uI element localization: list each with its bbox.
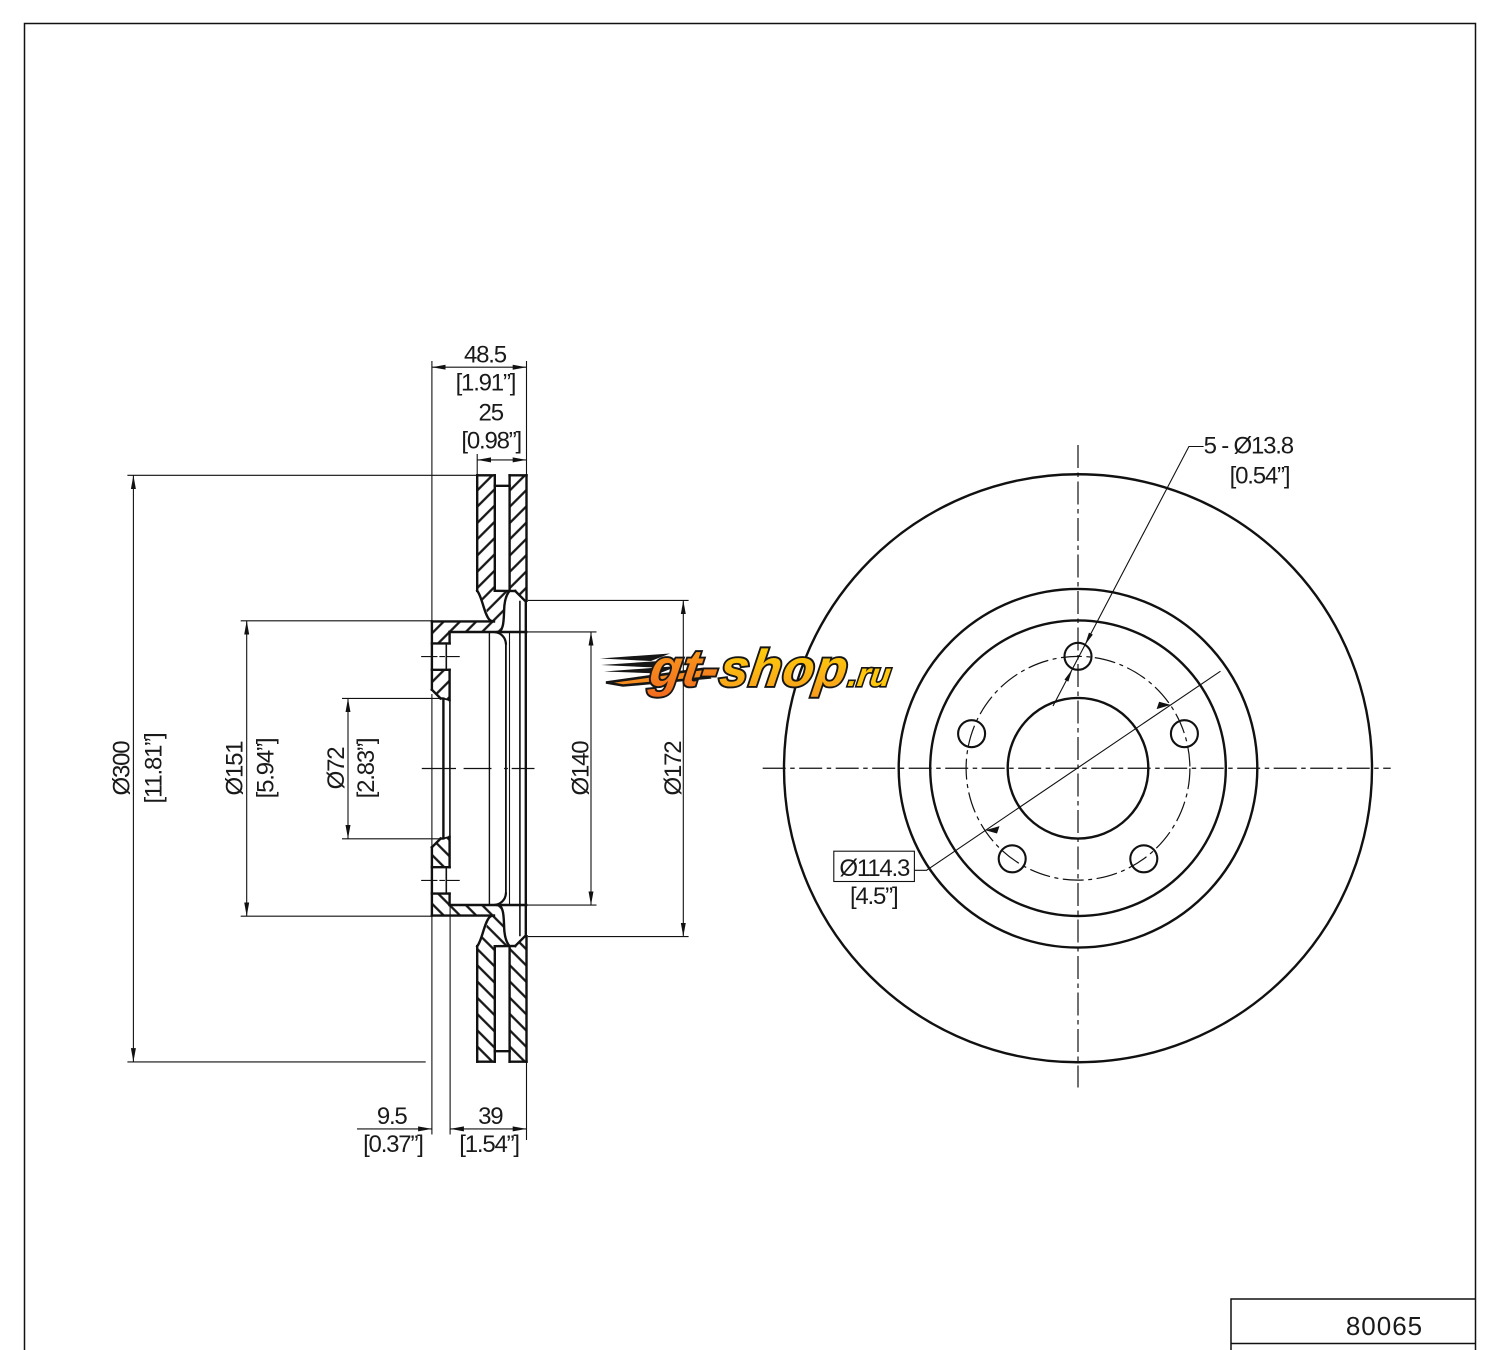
svg-text:5 - Ø13.8: 5 - Ø13.8 — [1204, 433, 1294, 460]
svg-text:[0.98”]: [0.98”] — [461, 428, 521, 455]
hub back face edge seen in bore — [449, 700, 451, 837]
bolt circle (centerline) — [966, 656, 1190, 880]
dimension 9.5 / 39 (bottom) — [357, 694, 527, 1140]
lower half of section (mirror) — [422, 837, 527, 1062]
svg-text:.ru: .ru — [846, 657, 893, 694]
speed spikes — [600, 654, 678, 674]
vertical centerline — [1077, 445, 1079, 1088]
svg-text:[11.81”]: [11.81”] — [141, 733, 168, 803]
bolt hole right-upper — [1171, 720, 1198, 747]
svg-text:[1.54”]: [1.54”] — [459, 1131, 519, 1158]
svg-text:gt-: gt- — [645, 640, 723, 698]
bolt hole right-lower — [1130, 845, 1157, 872]
svg-text:25: 25 — [479, 399, 504, 426]
friction band inner circle — [899, 589, 1258, 948]
center bore circle — [1008, 698, 1149, 839]
svg-text:39: 39 — [478, 1103, 503, 1130]
hat outer circle — [930, 620, 1226, 916]
svg-text:Ø300: Ø300 — [108, 741, 135, 796]
svg-text:Ø172: Ø172 — [660, 741, 687, 796]
orange swoosh blade — [606, 669, 709, 686]
svg-text:[0.37”]: [0.37”] — [363, 1131, 423, 1158]
svg-text:[5.94”]: [5.94”] — [253, 739, 280, 799]
bowl fillet silhouette — [488, 632, 490, 905]
bowl corner tangent edge — [509, 632, 511, 905]
svg-text:80065: 80065 — [1346, 1311, 1423, 1341]
upper half of section — [422, 475, 527, 700]
bowl bottom face edge — [505, 644, 507, 894]
svg-text:[2.83”]: [2.83”] — [353, 739, 380, 799]
left view axis centerline — [422, 768, 535, 770]
leader 5-D13.8 — [1053, 447, 1204, 707]
svg-text:[1.91”]: [1.91”] — [456, 370, 516, 397]
bolt hole top — [1065, 643, 1092, 670]
dimension D300 — [127, 475, 476, 1062]
outer diameter circle — [784, 474, 1372, 1062]
bolt hole left-lower — [999, 845, 1026, 872]
svg-text:48.5: 48.5 — [464, 342, 507, 369]
logo text — [645, 640, 893, 698]
dimension D151 — [241, 621, 432, 916]
dimension D72 — [342, 698, 440, 838]
svg-text:Ø114.3: Ø114.3 — [839, 855, 910, 882]
title block — [1231, 1299, 1476, 1350]
dimension 48.5 / 25 (thickness) — [432, 361, 527, 621]
dimension D172 — [528, 600, 689, 936]
bore interior edge — [442, 699, 444, 839]
svg-text:Ø72: Ø72 — [323, 747, 350, 790]
svg-text:[0.54”]: [0.54”] — [1230, 463, 1290, 490]
svg-text:Ø151: Ø151 — [222, 741, 249, 796]
dimension D140 — [526, 632, 596, 905]
arrow on bolt circle NE — [1157, 702, 1171, 709]
svg-text:[4.5”]: [4.5”] — [850, 883, 898, 910]
bolt hole left-upper — [958, 720, 985, 747]
svg-text:9.5: 9.5 — [377, 1103, 408, 1130]
svg-text:shop: shop — [716, 640, 852, 698]
outboard recess edge — [519, 601, 521, 936]
arrow on bolt circle SW — [985, 826, 999, 833]
horizontal centerline — [763, 767, 1391, 769]
svg-text:Ø140: Ø140 — [568, 741, 595, 796]
gt-shop.ru watermark logo — [600, 640, 893, 698]
leader D114.3 with box — [834, 671, 1221, 881]
outboard face background edge — [525, 601, 527, 936]
long background edges through bowl — [443, 601, 525, 936]
